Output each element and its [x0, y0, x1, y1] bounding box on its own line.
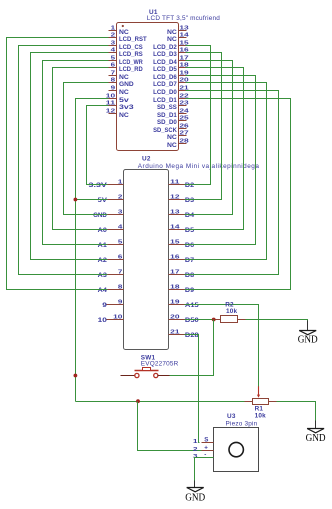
resistor R1 wiper arrow	[258, 386, 260, 395]
U1 right pin 25 SD_D0	[179, 120, 187, 122]
resistor R1 left pin	[245, 401, 253, 403]
svg-text:NC: NC	[167, 143, 178, 149]
svg-text:Arduino Mega Mini vajalikepinn: Arduino Mega Mini vajalikepinnidega	[138, 163, 260, 170]
U1 pin1 marker dot	[122, 25, 124, 27]
svg-text:17: 17	[170, 269, 179, 275]
svg-text:25: 25	[179, 115, 189, 121]
wire U1 pin2 to U2 A4	[7, 38, 109, 290]
svg-text:18: 18	[170, 284, 180, 290]
svg-text:13: 13	[179, 25, 189, 31]
svg-text:NC: NC	[119, 113, 130, 119]
switch SW1 left lead	[121, 375, 135, 377]
U2 left pin 1 3.3V	[107, 184, 124, 186]
IC U2 Arduino box	[124, 170, 169, 350]
U1 right pin 22 LCD_D1	[179, 98, 187, 100]
U2 left pin 8 A4	[107, 289, 124, 291]
U2 right pin 18 D9	[169, 289, 186, 291]
ground G2 near R1	[306, 429, 326, 445]
U1 right pin 17 LCD_D4	[179, 60, 187, 62]
wire U1 pin16 to U2 D3	[185, 53, 222, 200]
junction 5V rail piezo branch	[136, 399, 140, 403]
ground G3 pin stem	[194, 481, 196, 488]
wire U1 pin17 to U2 D4	[185, 61, 233, 215]
wire piezo plus branch	[138, 402, 214, 451]
svg-text:7: 7	[118, 269, 123, 275]
U2 left pin 4 A0	[107, 229, 124, 231]
U1 left pin 7 NC	[109, 75, 117, 77]
U2 right pin 20 D50	[169, 319, 186, 321]
U1 right pin 13 NC	[179, 30, 187, 32]
U1 left pin 6 LCD_RD	[109, 67, 117, 69]
wire U1 pin18 to U2 D5	[185, 68, 244, 230]
svg-text:SD_D0: SD_D0	[157, 120, 177, 126]
U2 left pin 6 A2	[107, 259, 124, 261]
svg-text:GND: GND	[119, 82, 134, 88]
junction 5V at U2 pin2	[74, 198, 78, 202]
svg-text:LCD_D5: LCD_D5	[153, 67, 177, 73]
svg-text:LCD_D4: LCD_D4	[153, 60, 177, 66]
wire U1 pin22 to U2 D9	[185, 99, 291, 290]
svg-text:26: 26	[179, 123, 189, 129]
wire U1 pin5 to U2 A1	[43, 61, 109, 245]
U1 left pin 2 LCD_RST	[109, 37, 117, 39]
U1 right pin 21 LCD_D0	[179, 90, 187, 92]
svg-text:19: 19	[170, 299, 180, 305]
ground G1 near R2	[298, 331, 318, 346]
svg-text:12: 12	[170, 194, 179, 200]
wire U1 pin4 to U2 A2	[31, 53, 109, 260]
wire 5V branch to U2 pin2	[76, 199, 108, 201]
U1 right pin 16 LCD_D3	[179, 52, 187, 54]
svg-text:+: +	[204, 445, 208, 452]
svg-text:2: 2	[118, 194, 123, 200]
svg-text:11: 11	[170, 179, 180, 185]
svg-text:U2: U2	[142, 156, 151, 163]
svg-text:10: 10	[98, 318, 108, 324]
svg-text:LCD_WR: LCD_WR	[119, 60, 143, 66]
svg-text:3v3: 3v3	[119, 105, 135, 111]
svg-text:NC: NC	[167, 37, 178, 43]
IC U3 piezo box	[214, 428, 259, 472]
svg-text:2: 2	[193, 447, 198, 453]
U1 left pin 3 LCD_CS	[109, 45, 117, 47]
U2 right pin 16 D7	[169, 259, 186, 261]
U1 right pin 15 LCD_D2	[179, 45, 187, 47]
svg-text:2: 2	[111, 32, 116, 38]
U2 right pin 21 D28	[169, 334, 186, 336]
wire piezo minus to GND	[195, 458, 214, 481]
U1 right pin 20 LCD_D7	[179, 82, 187, 84]
wire U1 pin19 to U2 D6	[185, 76, 256, 245]
resistor R2 left pin	[214, 319, 221, 321]
wire D50 junction down to SW1 right	[169, 320, 214, 376]
resistor R2 body	[221, 316, 238, 323]
U2 right pin 14 D5	[169, 229, 186, 231]
svg-text:LCD_D1: LCD_D1	[153, 98, 177, 104]
U3 pin 3 -	[202, 457, 214, 459]
wire 5V rail to R1	[76, 401, 245, 403]
svg-text:EVQ22705R: EVQ22705R	[141, 361, 179, 368]
U2 left pin 7 A3	[107, 274, 124, 276]
svg-text:NC: NC	[167, 135, 178, 141]
resistor R1 right pin	[269, 401, 277, 403]
U1 left pin 5 LCD_WR	[109, 60, 117, 62]
junction D50	[212, 318, 216, 322]
U1 right pin 26 SD_SCK	[179, 128, 187, 130]
U1 right pin 19 LCD_D6	[179, 75, 187, 77]
wire U1 pin20 to U2 D7	[185, 83, 267, 260]
svg-text:GND: GND	[185, 492, 205, 503]
junction 5V at SW1 row	[74, 374, 78, 378]
U1 right pin 23 SD_SS	[179, 105, 187, 107]
svg-text:NC: NC	[119, 75, 130, 81]
resistor R1 body	[253, 399, 269, 405]
svg-text:14: 14	[170, 224, 180, 230]
U1 right pin 14 NC	[179, 37, 187, 39]
svg-text:10k: 10k	[226, 308, 238, 315]
U3 pin 1 S	[202, 442, 214, 444]
wire 5V net U1 pin10 down	[76, 99, 109, 402]
U1 left pin 10 5v	[109, 98, 117, 100]
svg-text:LCD_RD: LCD_RD	[119, 67, 143, 73]
switch SW1 right lead	[158, 375, 170, 377]
U2 right pin 13 D4	[169, 214, 186, 216]
U2 right pin 17 D8	[169, 274, 186, 276]
wire U1 pin8 to U2 GND	[64, 83, 109, 215]
svg-text:10: 10	[113, 314, 122, 320]
switch SW1 actuator bar	[135, 370, 159, 372]
U1 right pin 18 LCD_D5	[179, 67, 187, 69]
svg-text:LCD_RST: LCD_RST	[119, 37, 147, 43]
svg-text:SD_SS: SD_SS	[157, 105, 177, 111]
U1 left pin 11 3v3	[109, 105, 117, 107]
wire U1 pin3 to U2 A3	[19, 46, 109, 275]
svg-text:10k: 10k	[255, 412, 267, 419]
switch SW1 actuator cap	[143, 368, 151, 371]
U1 right pin 27 NC	[179, 135, 187, 137]
svg-text:21: 21	[170, 329, 180, 335]
svg-text:14: 14	[179, 32, 189, 38]
svg-text:13: 13	[170, 209, 180, 215]
svg-text:LCD_D3: LCD_D3	[153, 52, 177, 58]
svg-text:27: 27	[179, 130, 188, 136]
U2 left pin 10 10	[107, 319, 124, 321]
switch SW1 left contact	[135, 373, 139, 377]
svg-text:S: S	[204, 437, 208, 444]
IC U1 LCD TFT box	[117, 23, 179, 151]
U1 left pin 4 LCD_RS	[109, 52, 117, 54]
svg-text:28: 28	[179, 138, 189, 144]
wire U1 pin6 to U2 A0	[53, 68, 109, 230]
svg-text:NC: NC	[119, 90, 130, 96]
svg-text:24: 24	[179, 108, 189, 114]
U2 right pin 11 D2	[169, 184, 186, 186]
U1 left pin 12 NC	[109, 113, 117, 115]
U1 left pin 8 GND	[109, 82, 117, 84]
svg-text:NC: NC	[167, 30, 178, 36]
switch SW1 right contact	[154, 373, 158, 377]
svg-text:LCD_D2: LCD_D2	[153, 45, 177, 51]
U2 left pin 2 5V	[107, 199, 124, 201]
svg-text:SD_D1: SD_D1	[157, 113, 177, 119]
wire U1 pin15 to U2 D2	[185, 46, 211, 185]
svg-text:LCD_D0: LCD_D0	[153, 90, 177, 96]
svg-text:20: 20	[170, 314, 179, 320]
svg-text:GND: GND	[298, 334, 318, 345]
svg-text:GND: GND	[306, 433, 326, 444]
U2 left pin 9 9	[107, 304, 124, 306]
svg-text:U3: U3	[227, 413, 236, 420]
U1 left pin 1 NC	[109, 30, 117, 32]
resistor R2 right pin	[238, 319, 246, 321]
svg-text:15: 15	[170, 239, 180, 245]
svg-text:Piezo 3pin: Piezo 3pin	[226, 421, 258, 428]
U2 left pin 3 GND	[107, 214, 124, 216]
wire A15 to R1 wiper	[185, 305, 259, 387]
wire R1 to GND	[277, 402, 316, 421]
U1 right pin 28 NC	[179, 143, 187, 145]
wire U1 pin21 to U2 D8	[185, 91, 279, 275]
svg-text:LCD_RS: LCD_RS	[119, 52, 143, 58]
svg-text:LCD_D7: LCD_D7	[153, 82, 177, 88]
U3 piezo circle	[229, 442, 243, 456]
U1 left pin 9 NC	[109, 90, 117, 92]
U2 right pin 15 D6	[169, 244, 186, 246]
ground G3 near piezo	[185, 488, 205, 504]
wire D28 to piezo S	[185, 335, 200, 443]
svg-text:LCD_D6: LCD_D6	[153, 75, 177, 81]
svg-text:5v: 5v	[119, 98, 130, 104]
svg-text:12: 12	[106, 108, 115, 114]
U1 right pin 24 SD_D1	[179, 113, 187, 115]
ground G2 pin stem	[315, 421, 317, 429]
U2 right pin 12 D3	[169, 199, 186, 201]
svg-text:16: 16	[170, 254, 180, 260]
wire D50 to R2	[185, 319, 215, 321]
svg-text:NC: NC	[119, 30, 130, 36]
svg-text:LCD TFT 3,5" mcufriend: LCD TFT 3,5" mcufriend	[147, 15, 220, 22]
U2 right pin 19 A15	[169, 304, 186, 306]
ground G1 pin stem	[307, 321, 309, 331]
wire U1 pin11 to U2 3.3V	[87, 106, 109, 185]
svg-text:LCD_CS: LCD_CS	[119, 45, 143, 51]
U3 pin 2 +	[202, 450, 214, 452]
wire R2 to GND	[246, 320, 308, 321]
svg-text:SD_SCK: SD_SCK	[153, 128, 177, 134]
U2 left pin 5 A1	[107, 244, 124, 246]
svg-text:7: 7	[111, 70, 116, 76]
svg-text:23: 23	[179, 100, 189, 106]
